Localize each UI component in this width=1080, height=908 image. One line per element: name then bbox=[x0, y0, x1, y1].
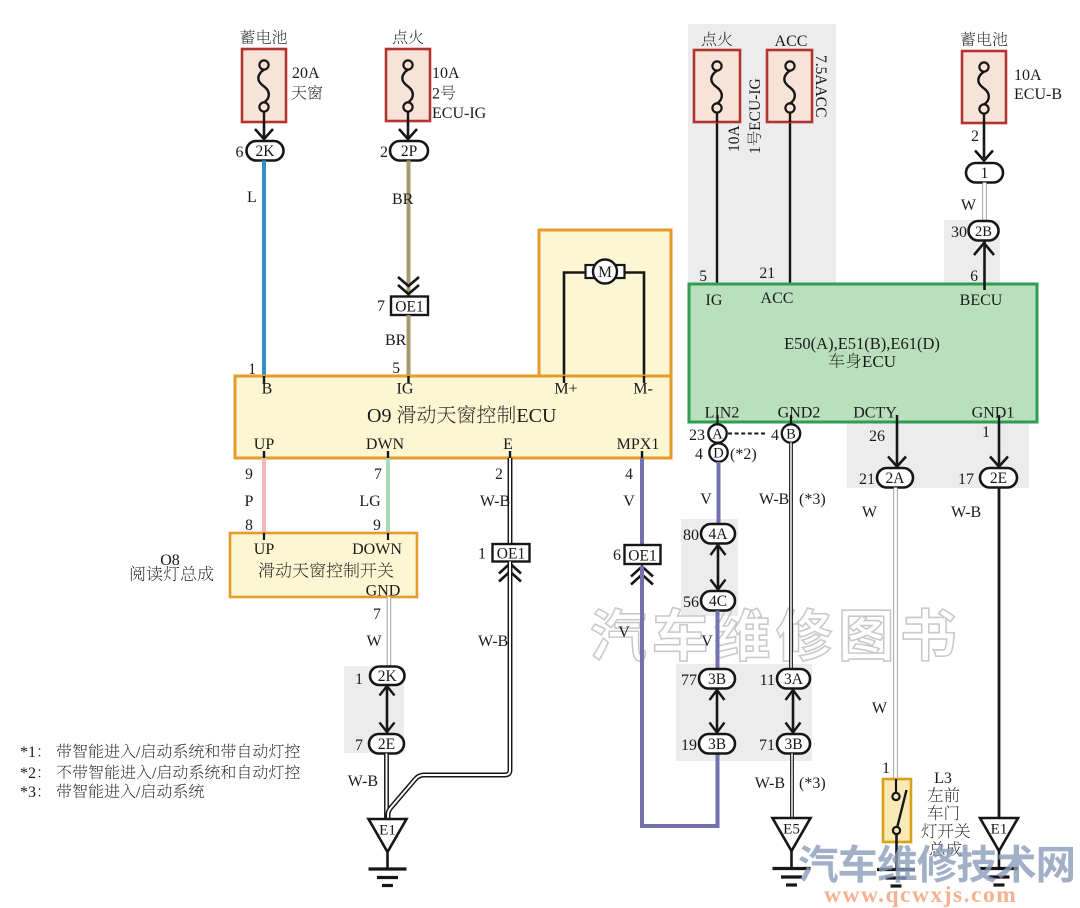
title 车身ECU bbox=[829, 353, 845, 368]
svg-text:DCTY: DCTY bbox=[853, 405, 897, 422]
svg-text:www.qcwxjs.com: www.qcwxjs.com bbox=[824, 882, 1017, 908]
svg-text:11: 11 bbox=[760, 672, 775, 689]
svg-text:B: B bbox=[786, 427, 796, 443]
arrowhead into 2A bbox=[888, 457, 906, 467]
title 滑动天窗控制开关 bbox=[259, 563, 275, 578]
svg-text:2A: 2A bbox=[886, 470, 906, 487]
wire W-B below 2E bbox=[998, 488, 1001, 819]
ground symbol E5 bbox=[773, 867, 811, 870]
svg-text:2E: 2E bbox=[990, 470, 1007, 487]
fuse F5 蓄电池 10A ECU-B box bbox=[962, 51, 1006, 123]
svg-text:BR: BR bbox=[392, 191, 414, 208]
label 左前 bbox=[928, 787, 943, 801]
connector 2P bbox=[390, 141, 428, 161]
connector 3B (upper) bbox=[699, 669, 735, 689]
wire GND1 to 2E bbox=[998, 422, 1001, 466]
wire W below 2A (white wire) bbox=[893, 488, 897, 780]
connector oval 1 bbox=[966, 163, 1003, 183]
svg-text:6: 6 bbox=[236, 144, 244, 161]
svg-text:7: 7 bbox=[377, 298, 385, 315]
wire 4A-4C bbox=[717, 544, 720, 592]
chevron up toward 4A bbox=[711, 545, 726, 555]
svg-text:*1: *1 bbox=[20, 744, 36, 761]
pin tick M- bbox=[643, 376, 645, 383]
svg-text:W-B: W-B bbox=[480, 493, 510, 510]
svg-text:DOWN: DOWN bbox=[352, 541, 402, 558]
svg-text:2K: 2K bbox=[378, 668, 398, 685]
connector 3B (lower) bbox=[699, 734, 735, 754]
svg-text:6: 6 bbox=[613, 547, 621, 564]
switch lever bbox=[898, 790, 907, 826]
connector 4A bbox=[701, 524, 735, 544]
arrowhead into 2P bbox=[399, 129, 417, 139]
sunroof motor enclosure box bbox=[539, 230, 671, 376]
pin tick LIN2 bbox=[716, 415, 718, 424]
ground symbol E1 left bbox=[369, 867, 407, 870]
background band behind 2B connector column bbox=[944, 220, 1000, 284]
wire V from MPX1 bbox=[640, 458, 644, 546]
svg-text:GND1: GND1 bbox=[972, 405, 1015, 422]
svg-text:ECU: ECU bbox=[862, 352, 896, 371]
svg-text:B: B bbox=[262, 381, 273, 398]
connector 2E (lower left) bbox=[369, 734, 404, 754]
switch contact top bbox=[892, 793, 899, 800]
wire V from D bbox=[717, 462, 721, 524]
label 总成 bbox=[930, 841, 945, 856]
svg-text:BECU: BECU bbox=[960, 292, 1003, 309]
pin tick DWN bbox=[387, 451, 389, 458]
svg-text:LIN2: LIN2 bbox=[705, 405, 740, 422]
svg-text:4: 4 bbox=[625, 466, 633, 483]
svg-text:(*3): (*3) bbox=[799, 775, 826, 792]
svg-text:W-B: W-B bbox=[951, 504, 981, 521]
wire W-B OE1 to E1 ground bbox=[388, 562, 510, 820]
svg-text:ACC: ACC bbox=[761, 290, 794, 307]
svg-text:BR: BR bbox=[385, 332, 407, 349]
wire W (F5, white wire) bbox=[982, 183, 986, 222]
node A bbox=[708, 424, 726, 442]
wire W-B 3B to E5 bbox=[790, 754, 794, 819]
switch wire inside bbox=[895, 779, 897, 793]
svg-text:*2: *2 bbox=[20, 765, 36, 782]
pin tick IG bbox=[407, 376, 409, 383]
wire W-B from E bbox=[508, 458, 513, 544]
chevron down toward 3B lower bbox=[710, 723, 725, 733]
label 车门 bbox=[928, 805, 943, 820]
svg-text:4C: 4C bbox=[709, 593, 727, 610]
background band behind 3B/3A connectors bbox=[676, 664, 812, 761]
connector 2K (lower) bbox=[370, 667, 405, 686]
svg-text:ECU-IG: ECU-IG bbox=[432, 105, 487, 122]
junction chevrons into OE1 bbox=[398, 285, 419, 294]
wire 3A-3B bbox=[792, 689, 795, 735]
svg-text:M: M bbox=[598, 264, 612, 281]
svg-text:19: 19 bbox=[681, 737, 697, 754]
ground symbol L3 bbox=[877, 868, 915, 871]
wire DCTY to 2A bbox=[896, 422, 899, 466]
svg-text:5: 5 bbox=[699, 268, 707, 285]
switch contact bottom bbox=[893, 827, 900, 834]
svg-text:9: 9 bbox=[373, 517, 381, 534]
svg-text:3B: 3B bbox=[708, 671, 726, 688]
svg-text:W: W bbox=[961, 197, 977, 214]
svg-text:17: 17 bbox=[958, 471, 974, 488]
svg-text:7: 7 bbox=[373, 606, 381, 623]
chevron down toward 3B (71) bbox=[786, 723, 801, 733]
svg-text:V: V bbox=[618, 624, 630, 641]
connector OE1 (MPX1 column) bbox=[625, 545, 661, 565]
stem E5 bbox=[790, 851, 793, 867]
fuse F4 ACC 7.5A box bbox=[767, 50, 812, 122]
svg-text:L: L bbox=[247, 189, 257, 206]
svg-text:20A: 20A bbox=[292, 65, 320, 82]
svg-text:9: 9 bbox=[245, 466, 253, 483]
ground triangle E5 bbox=[773, 818, 811, 851]
background band behind ignition/ACC fuse columns bbox=[688, 24, 836, 284]
wire V 4C to 3B bbox=[716, 611, 720, 670]
svg-text:OE1: OE1 bbox=[497, 546, 525, 563]
junction chevrons below OE1 (MPX1) bbox=[631, 567, 653, 577]
wire 3B-3B bbox=[716, 689, 719, 735]
label 天窗 (F1) bbox=[292, 86, 307, 100]
wire F5 down bbox=[983, 123, 986, 158]
svg-text:P: P bbox=[245, 493, 254, 510]
wire M- (right) bbox=[623, 273, 644, 377]
pin tick M+ bbox=[563, 376, 565, 383]
svg-text:77: 77 bbox=[681, 672, 697, 689]
svg-text:ACC: ACC bbox=[775, 33, 808, 50]
pin tick GND1 bbox=[998, 415, 1000, 422]
stem E1 right bbox=[998, 851, 1001, 867]
svg-text:IG: IG bbox=[706, 292, 723, 309]
wire F1 to 2K bbox=[263, 122, 266, 138]
svg-text:O9: O9 bbox=[367, 405, 391, 427]
stem E1 left bbox=[386, 852, 389, 868]
svg-text:UP: UP bbox=[254, 436, 275, 453]
svg-text:10A: 10A bbox=[1014, 67, 1042, 84]
svg-text:(*3): (*3) bbox=[799, 491, 826, 508]
svg-text:OE1: OE1 bbox=[395, 299, 423, 316]
svg-text:ECU-IG: ECU-IG bbox=[747, 78, 764, 131]
junction chevrons below OE1 (E col) bbox=[499, 564, 521, 574]
svg-text:*3: *3 bbox=[20, 784, 36, 801]
svg-text:W: W bbox=[366, 633, 382, 650]
svg-text:E5: E5 bbox=[783, 822, 800, 838]
wire W-B below 2E bbox=[384, 754, 389, 819]
svg-text:W-B: W-B bbox=[348, 773, 378, 790]
svg-text:GND2: GND2 bbox=[778, 405, 821, 422]
wire 2B to BECU bbox=[983, 241, 986, 291]
svg-text:/: / bbox=[136, 784, 141, 801]
ground triangle E1 right bbox=[980, 818, 1018, 851]
node D bbox=[709, 443, 727, 461]
svg-text:M-: M- bbox=[633, 381, 653, 398]
motor M brushes bbox=[586, 265, 596, 278]
svg-text:V: V bbox=[623, 493, 635, 510]
wire L (blue) bbox=[262, 161, 266, 377]
svg-text:2: 2 bbox=[971, 128, 979, 145]
wire fuse4 to ACC bbox=[789, 122, 791, 290]
svg-text:7: 7 bbox=[374, 466, 382, 483]
svg-text:M+: M+ bbox=[554, 381, 577, 398]
svg-text:W: W bbox=[862, 504, 878, 521]
svg-text:MPX1: MPX1 bbox=[617, 436, 660, 453]
svg-text:1: 1 bbox=[747, 146, 764, 154]
connector 4C bbox=[701, 591, 735, 611]
svg-text:IG: IG bbox=[397, 381, 414, 398]
chevron up toward 3B bbox=[710, 690, 725, 700]
svg-text:1: 1 bbox=[982, 424, 990, 441]
pin tick E bbox=[509, 451, 511, 458]
label 点火 (F3) bbox=[702, 32, 716, 47]
svg-text:DWN: DWN bbox=[366, 436, 405, 453]
label 1号 ECU-IG (rotated) bbox=[747, 78, 764, 154]
label 阅读灯总成 bbox=[131, 566, 145, 581]
watermark 汽车维修技术网 bbox=[799, 844, 1073, 883]
svg-text:2E: 2E bbox=[378, 736, 395, 753]
svg-text:2K: 2K bbox=[256, 143, 276, 160]
door switch L3 box bbox=[883, 779, 911, 842]
svg-text:23: 23 bbox=[689, 427, 705, 444]
svg-text:80: 80 bbox=[683, 527, 699, 544]
chevron up toward 2K bbox=[380, 686, 395, 696]
svg-text:6: 6 bbox=[970, 268, 978, 285]
fuse F1 蓄电池 20A 天窗 box bbox=[242, 49, 286, 122]
switch pin tick DOWN bbox=[387, 533, 389, 540]
svg-text:7.5AACC: 7.5AACC bbox=[812, 55, 829, 117]
svg-text:/: / bbox=[136, 744, 141, 761]
svg-text:O8: O8 bbox=[160, 552, 180, 569]
pin tick MPX1 bbox=[641, 451, 643, 458]
arrowhead into 2E bbox=[990, 457, 1008, 467]
connector 3A bbox=[777, 669, 810, 689]
label 灯开关 bbox=[922, 823, 937, 838]
svg-text:E1: E1 bbox=[991, 822, 1008, 838]
svg-text:3B: 3B bbox=[708, 736, 726, 753]
svg-text:W: W bbox=[872, 700, 888, 717]
svg-text:1: 1 bbox=[478, 546, 486, 563]
svg-text:2P: 2P bbox=[401, 143, 417, 160]
svg-text:30: 30 bbox=[951, 224, 967, 241]
svg-text:10A: 10A bbox=[726, 125, 743, 153]
svg-text:V: V bbox=[700, 491, 712, 508]
svg-text:4: 4 bbox=[695, 446, 703, 463]
chevron up toward 3A bbox=[786, 690, 801, 700]
label 蓄电池 (F5) bbox=[961, 32, 975, 46]
body ECU box bbox=[689, 284, 1037, 422]
svg-text:1: 1 bbox=[981, 165, 989, 182]
svg-text:LG: LG bbox=[359, 493, 381, 510]
svg-text:2: 2 bbox=[495, 466, 503, 483]
svg-text:21: 21 bbox=[859, 471, 875, 488]
wire V loop MPX1 to 3B bbox=[642, 566, 718, 826]
svg-text:/: / bbox=[152, 765, 157, 782]
motor M circle bbox=[593, 260, 617, 284]
wire W below switch (white wire) bbox=[387, 597, 391, 666]
svg-text:1: 1 bbox=[355, 671, 363, 688]
watermark 汽车维修图书 bbox=[591, 607, 954, 661]
wire P (pink) bbox=[262, 458, 266, 533]
wire between 2K and 2E bbox=[386, 685, 389, 734]
chevron down toward 4C bbox=[711, 580, 726, 590]
ground symbol E1 right bbox=[980, 867, 1018, 870]
wire M+ (left) bbox=[564, 273, 587, 377]
svg-text:E: E bbox=[503, 436, 513, 453]
svg-text:UP: UP bbox=[254, 541, 275, 558]
svg-text:OE1: OE1 bbox=[628, 548, 656, 565]
node B bbox=[782, 424, 800, 442]
pin tick DCTY bbox=[896, 415, 898, 422]
svg-text:D: D bbox=[713, 446, 723, 462]
svg-text:3B: 3B bbox=[784, 736, 802, 753]
svg-text:5: 5 bbox=[392, 360, 400, 377]
chevron up into 2B bbox=[974, 243, 994, 255]
svg-text:V: V bbox=[701, 633, 713, 650]
sunroof control switch box bbox=[230, 533, 417, 597]
svg-text:2B: 2B bbox=[975, 224, 992, 240]
background band behind 2K/2E connectors bbox=[344, 666, 404, 753]
svg-text:GND: GND bbox=[366, 583, 401, 600]
svg-text:2: 2 bbox=[380, 144, 388, 161]
svg-text:7: 7 bbox=[355, 737, 363, 754]
connector OE1 (BR column) bbox=[391, 297, 428, 316]
svg-text:ECU-B: ECU-B bbox=[1014, 86, 1062, 103]
svg-text:A: A bbox=[712, 427, 723, 443]
switch pin tick UP bbox=[263, 533, 265, 540]
svg-text:1: 1 bbox=[882, 760, 890, 777]
wire BR lower bbox=[407, 315, 411, 376]
svg-text:2: 2 bbox=[432, 86, 440, 103]
wire F2 to 2P bbox=[407, 121, 410, 138]
svg-text:3A: 3A bbox=[784, 671, 804, 688]
svg-text:21: 21 bbox=[760, 265, 776, 282]
connector 2K (top) bbox=[247, 141, 284, 161]
svg-text:W-B: W-B bbox=[759, 491, 789, 508]
O9 sunroof control ECU box bbox=[235, 376, 671, 458]
pin tick B bbox=[263, 376, 265, 383]
connector 2E (right) bbox=[980, 468, 1017, 488]
connector OE1 (E column) bbox=[493, 544, 530, 563]
ground triangle E1 left bbox=[369, 819, 407, 852]
pin tick UP bbox=[263, 451, 265, 458]
connector 3B (71) bbox=[777, 734, 810, 754]
svg-text:56: 56 bbox=[683, 594, 699, 611]
dashed link A-B bbox=[728, 433, 766, 435]
background band behind 4A/4C connectors bbox=[681, 519, 738, 616]
svg-text:10A: 10A bbox=[432, 65, 460, 82]
chevron down toward 2E bbox=[380, 723, 395, 733]
fuse F2 点火 10A 2号 ECU-IG box bbox=[386, 49, 430, 121]
svg-text:E1: E1 bbox=[379, 823, 396, 839]
svg-text:W-B: W-B bbox=[755, 775, 785, 792]
arrowhead into oval 1 bbox=[975, 151, 993, 161]
svg-text:4: 4 bbox=[771, 427, 779, 444]
svg-text:8: 8 bbox=[245, 517, 253, 534]
svg-text:71: 71 bbox=[759, 737, 775, 754]
svg-text:4A: 4A bbox=[709, 526, 729, 543]
fuse F3 点火 10A 1号 ECU-IG box bbox=[694, 50, 740, 122]
wire LG (light green) bbox=[386, 458, 390, 533]
wire W-B from B bbox=[789, 443, 793, 670]
svg-text:L3: L3 bbox=[934, 770, 952, 787]
wire BR upper (brown) bbox=[407, 161, 411, 297]
background band behind 2A/2E connectors bbox=[847, 421, 1029, 488]
svg-text:(*2): (*2) bbox=[730, 446, 757, 463]
label 点火 (F2) bbox=[393, 30, 407, 45]
svg-text:ECU: ECU bbox=[516, 405, 557, 427]
wire fuse3 to IG bbox=[716, 122, 718, 290]
pin tick GND2 bbox=[790, 415, 792, 424]
connector 2A bbox=[877, 468, 913, 488]
svg-text:E50(A),E51(B),E61(D): E50(A),E51(B),E61(D) bbox=[784, 334, 940, 353]
label 蓄电池 (F1) bbox=[240, 30, 254, 44]
svg-text:W-B: W-B bbox=[478, 633, 508, 650]
arrowhead into 2K bbox=[255, 129, 273, 139]
svg-text:26: 26 bbox=[869, 428, 885, 445]
connector 2B bbox=[969, 221, 999, 241]
